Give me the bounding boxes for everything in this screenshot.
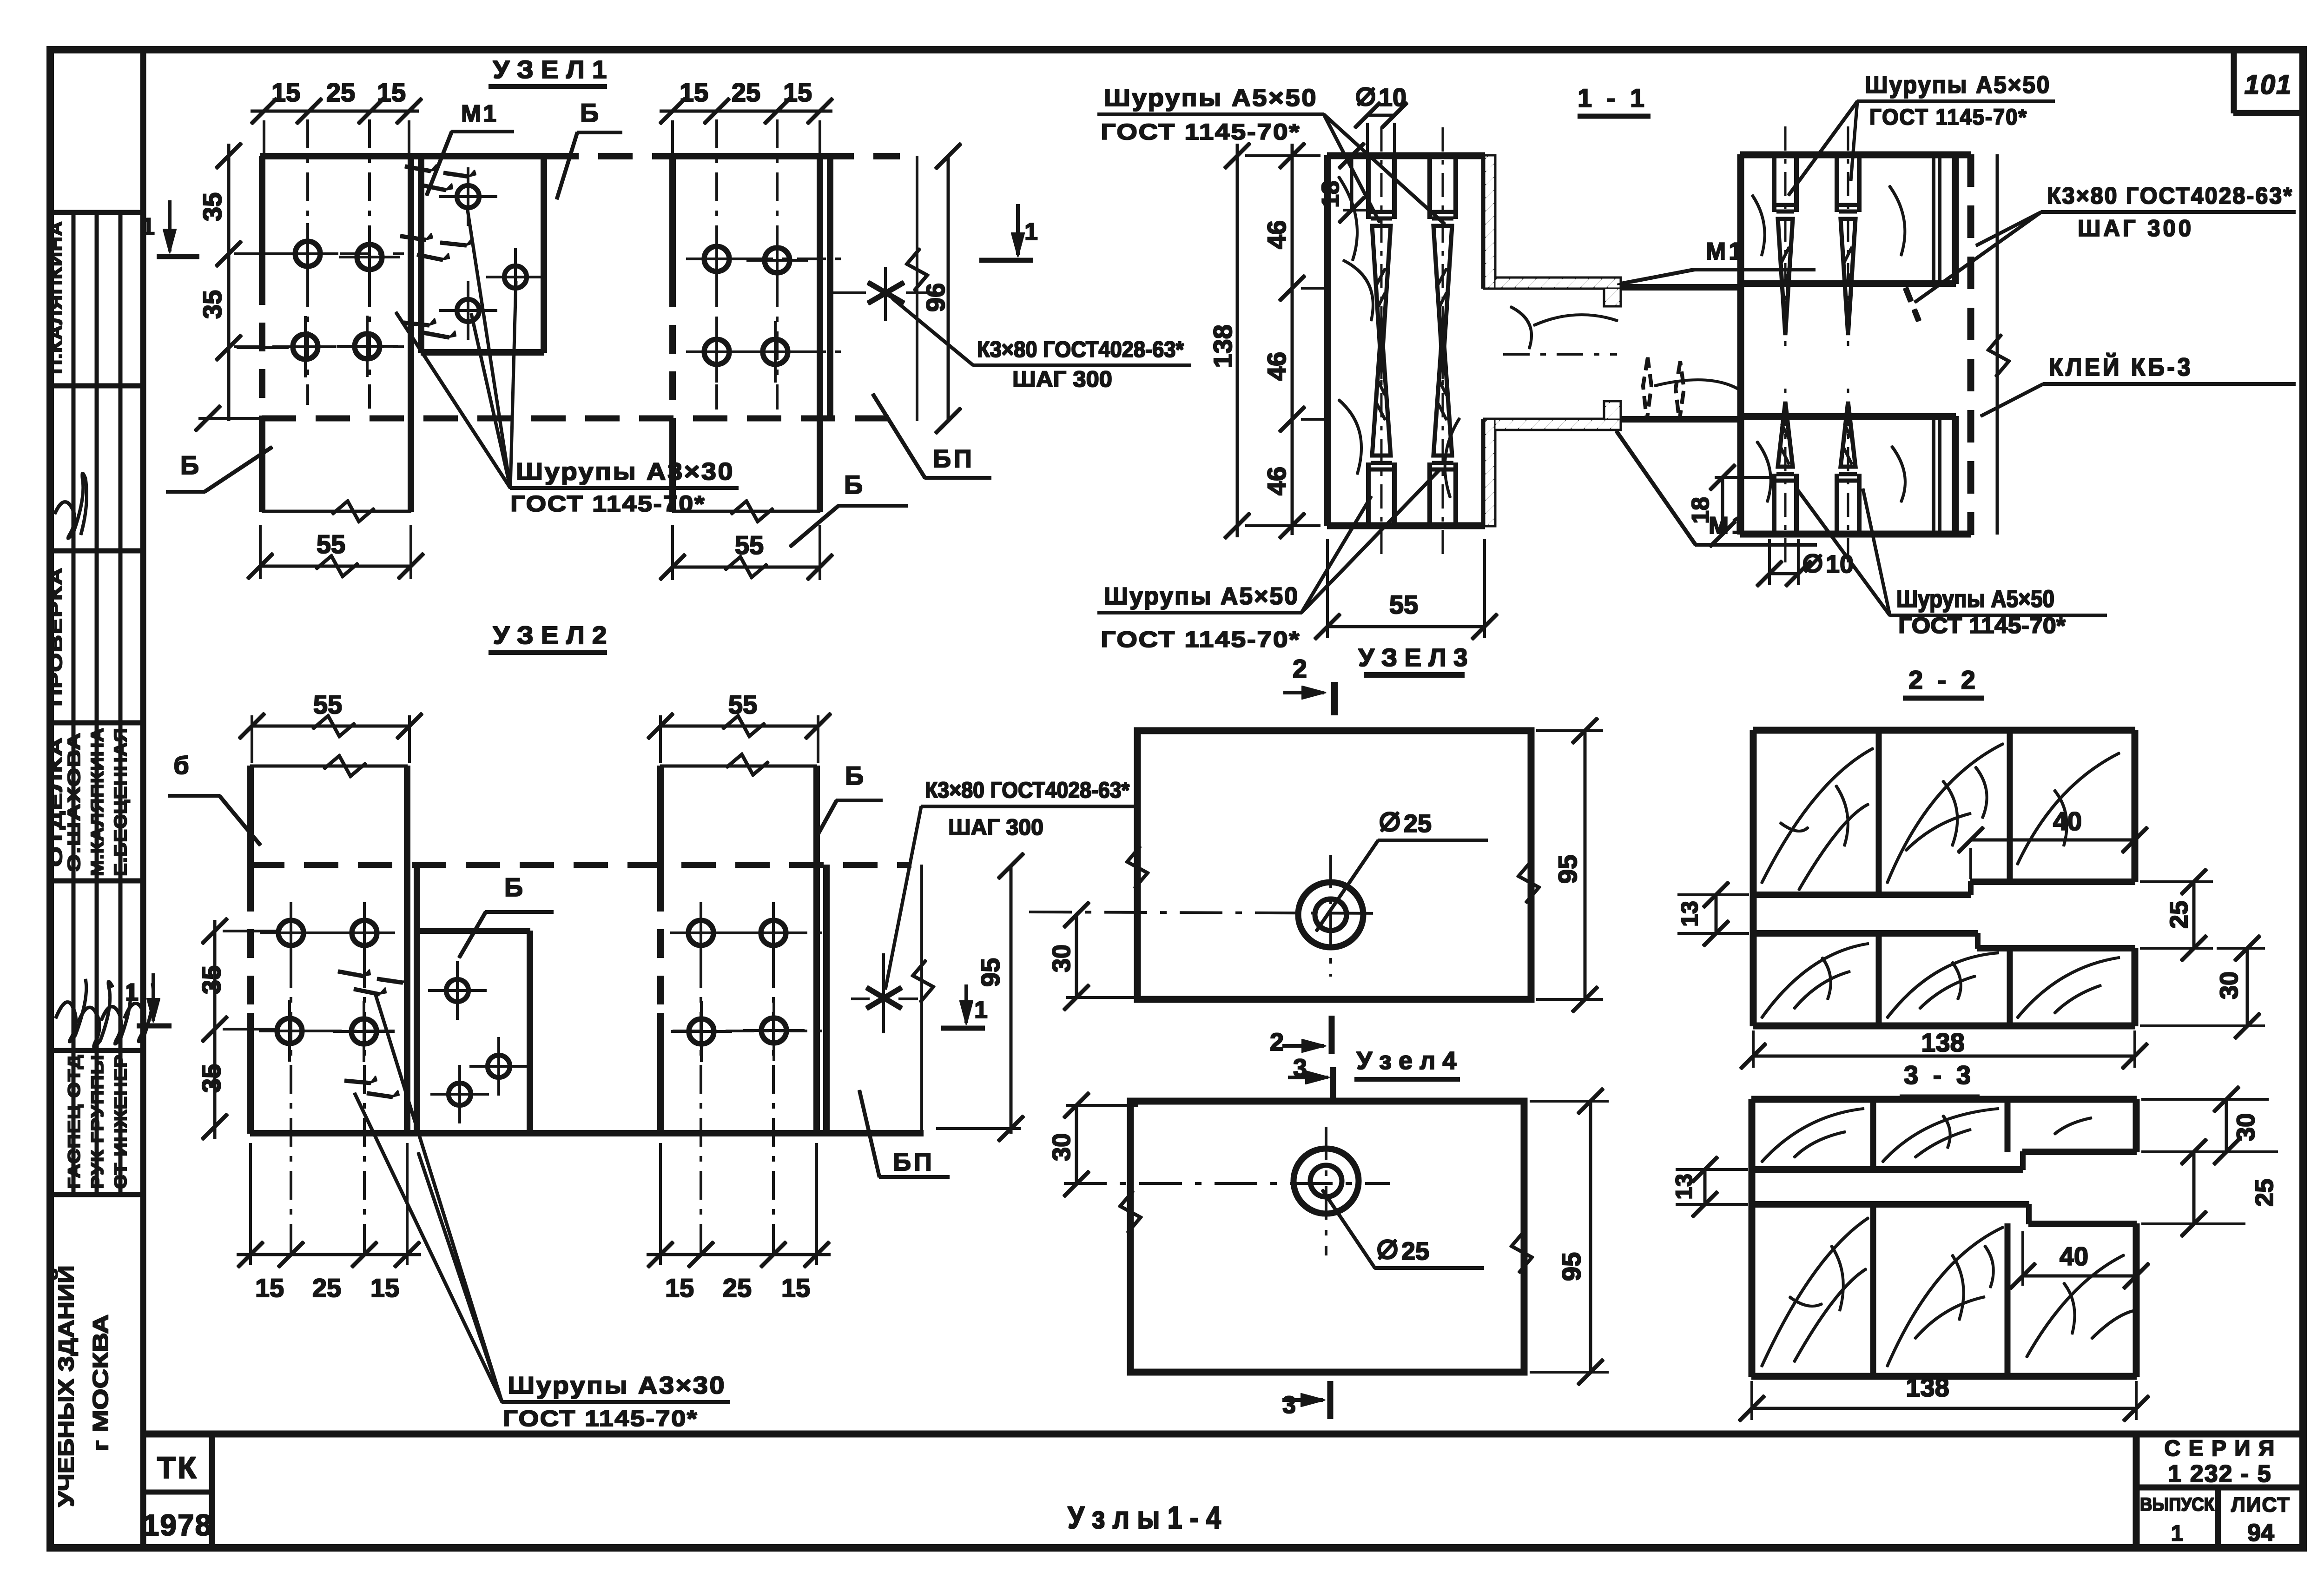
uzel4 bottom marker [1282, 1381, 1330, 1419]
series box [2136, 1434, 2303, 1548]
sec11R hidden edge dashed [1968, 155, 1974, 535]
uzel1 nail cross [832, 267, 937, 321]
uzel3 centerlines [1030, 855, 1383, 976]
title text СТ ИНЖЕНЕР [111, 1054, 130, 1189]
sec33 block outline [1752, 1099, 2136, 1376]
svg-text:2: 2 [1293, 654, 1307, 683]
sec11 post grain [1339, 177, 1459, 497]
bottom strip line [143, 1431, 2303, 1437]
svg-text:К3×80 ГОСТ4028-63*: К3×80 ГОСТ4028-63* [977, 337, 1184, 362]
svg-text:ШАГ 300: ШАГ 300 [2078, 215, 2194, 241]
uzel2A dim 35 chain [197, 918, 279, 1139]
svg-text:25: 25 [723, 1273, 752, 1302]
svg-text:Б: Б [580, 98, 599, 127]
title text П.КАЛЯПКИНА [46, 221, 66, 374]
uzel2B post holes [671, 903, 804, 1062]
title table grid [50, 212, 143, 1195]
uzel3 dim 95 [1537, 718, 1603, 1012]
svg-text:94: 94 [2247, 1519, 2274, 1546]
svg-text:Б: Б [845, 761, 864, 790]
uzel4 hole [1294, 1149, 1359, 1214]
svg-text:18: 18 [1317, 181, 1344, 208]
signature 1 [55, 474, 86, 538]
sec11 screw A1 top [1368, 128, 1394, 388]
uzel2B post left edge [658, 766, 663, 1133]
uzel1 label Б bottom [790, 470, 907, 547]
svg-text:Шурупы А3×30: Шурупы А3×30 [516, 458, 734, 485]
uzel1A screw wedges mid [401, 233, 473, 260]
section 3-3 heading [1900, 1060, 1979, 1097]
svg-text:1: 1 [141, 213, 155, 240]
uzel4 heading [1355, 1047, 1459, 1079]
vertical text г МОСКВА [88, 1315, 112, 1452]
svg-text:ШАГ 300: ШАГ 300 [1012, 367, 1112, 392]
svg-text:ТК: ТК [157, 1450, 198, 1485]
uzel1 screws label [396, 210, 738, 516]
uzel2A cut line [251, 756, 407, 776]
svg-text:95: 95 [1553, 855, 1582, 884]
sec11 beam top edge [1620, 284, 1741, 290]
svg-text:К3×80 ГОСТ4028-63*: К3×80 ГОСТ4028-63* [2047, 183, 2293, 209]
svg-text:Шурупы А5×50: Шурупы А5×50 [1896, 586, 2054, 613]
year 1978 [143, 1508, 212, 1542]
svg-text:25: 25 [312, 1273, 341, 1302]
svg-text:КЛЕЙ КБ-3: КЛЕЙ КБ-3 [2049, 353, 2193, 381]
svg-text:Э.ШАХОВА: Э.ШАХОВА [65, 732, 84, 872]
uzel1A dim 55 [248, 525, 423, 579]
uzel2A post holes [259, 903, 395, 1062]
sec22 dim 25 [2140, 869, 2212, 961]
svg-text:ОТДЕЛКА: ОТДЕЛКА [46, 737, 66, 867]
sec33 grain lower [1762, 1218, 2133, 1367]
uzel2 screws label [355, 995, 730, 1431]
uzel1B post left edge [670, 156, 675, 511]
sheet number 101 [2245, 70, 2292, 100]
signature 3 [78, 982, 112, 1047]
svg-text:1978: 1978 [143, 1508, 212, 1542]
sec11R screw B1 top [1774, 127, 1796, 353]
uzel1A screw wedges top [405, 165, 476, 190]
uzel2A screw wedges 1 [338, 970, 409, 994]
uzel3 bottom marker 2 [1270, 1016, 1332, 1056]
sec11 label M1 lower [1617, 431, 1816, 545]
svg-text:ГАСПЕЦ ОТД: ГАСПЕЦ ОТД [65, 1054, 84, 1189]
uzel3 label phi25 [1316, 810, 1487, 931]
svg-text:96: 96 [921, 283, 950, 312]
svg-text:15: 15 [377, 78, 406, 107]
series text СЕРИЯ [2164, 1436, 2275, 1461]
svg-text:55: 55 [317, 529, 345, 559]
svg-text:ШАГ 300: ШАГ 300 [948, 815, 1043, 840]
svg-text:15: 15 [271, 78, 300, 107]
uzel2 label K3x80 [885, 778, 1135, 989]
uzel2B cut line [660, 754, 817, 775]
title text Э.ШАХОВА [65, 732, 84, 872]
svg-text:1: 1 [1024, 218, 1038, 245]
uzel2B plate line [824, 865, 829, 1133]
svg-text:40: 40 [2060, 1242, 2088, 1271]
svg-text:Шурупы А5×50: Шурупы А5×50 [1865, 72, 2051, 99]
sec33 dim 25 [2142, 1139, 2278, 1236]
sec22 dim 138 [1741, 1028, 2147, 1069]
sec11R screw B2 top [1837, 127, 1859, 353]
svg-text:ГОСТ 1145-70*: ГОСТ 1145-70* [1101, 120, 1301, 145]
svg-text:15: 15 [781, 1273, 810, 1302]
svg-text:30: 30 [1048, 1133, 1076, 1161]
uzel2 nail cross [852, 954, 918, 1033]
svg-text:95: 95 [976, 958, 1005, 987]
uzel2 beam top dashed [251, 863, 911, 868]
svg-text:30: 30 [2215, 971, 2243, 999]
sec11R right boundary [1988, 155, 2009, 534]
sec11 beam bottom edge [1620, 416, 1741, 422]
svg-text:35: 35 [198, 192, 227, 221]
uzel2A screw wedges 2 [345, 1076, 399, 1097]
svg-text:Б: Б [180, 450, 199, 480]
svg-text:ПРОВЕРКА: ПРОВЕРКА [46, 567, 66, 707]
sec11 screw A4 bottom [1430, 307, 1456, 554]
sec11 screw A2 top [1430, 128, 1456, 388]
svg-text:1: 1 [125, 979, 139, 1006]
uzel1 section marker right [980, 205, 1038, 260]
uzel2 label Б top [817, 761, 882, 837]
uzel2 label БП [859, 1090, 949, 1177]
uzel2A plate outline [417, 865, 530, 1133]
svg-text:г МОСКВА: г МОСКВА [88, 1315, 112, 1452]
uzel1A screw wedges low [403, 318, 456, 337]
sec11R screws label bottom [1797, 489, 2106, 638]
svg-text:55: 55 [728, 690, 757, 719]
svg-text:138: 138 [1921, 1028, 1964, 1057]
sec11R inner lines [1934, 155, 1940, 534]
sec11 beam grain [1511, 307, 1741, 390]
svg-text:У З Е Л 3: У З Е Л 3 [1359, 644, 1468, 672]
uzel1 label БП [873, 394, 991, 478]
vertical text УЧЕБНЫХ ЗДАНИЙ [54, 1265, 78, 1507]
uzel1B post right edge [817, 156, 823, 511]
svg-text:46: 46 [1262, 352, 1291, 381]
sec33 grain upper [1762, 1109, 2092, 1162]
svg-text:35: 35 [197, 1064, 226, 1093]
svg-text:ГОСТ 1145-70*: ГОСТ 1145-70* [503, 1407, 698, 1431]
svg-text:15: 15 [255, 1273, 284, 1302]
uzel1B hole column centerlines [692, 120, 840, 409]
svg-text:25: 25 [326, 78, 355, 107]
svg-text:ГОСТ 1145-70*: ГОСТ 1145-70* [1898, 614, 2066, 638]
uzel2 section marker left [125, 974, 171, 1026]
svg-text:15: 15 [665, 1273, 694, 1302]
svg-text:Шурупы А3×30: Шурупы А3×30 [508, 1372, 726, 1399]
svg-text:55: 55 [1389, 590, 1418, 619]
uzel3 bottom marker 3 [1288, 1054, 1333, 1101]
sec11R label K3x80 [1906, 183, 2295, 321]
uzel1A post holes [275, 224, 400, 377]
uzel2A hole column centerlines [260, 906, 418, 1257]
sec33 dim 30 [2142, 1087, 2278, 1164]
section 2-2 heading [1903, 665, 1984, 698]
list text [2231, 1493, 2291, 1516]
sec22 block outline [1753, 730, 2135, 1026]
svg-text:БП: БП [893, 1148, 935, 1176]
svg-text:55: 55 [735, 530, 764, 560]
svg-text:25: 25 [1404, 810, 1432, 838]
uzel1A post left edge [259, 156, 265, 511]
sec22 grain lower [1762, 944, 2119, 1018]
series number [2168, 1460, 2271, 1487]
title text М.КАЛЯПКИНА [88, 727, 107, 876]
svg-text:30: 30 [1048, 945, 1076, 972]
svg-text:М1: М1 [461, 100, 498, 127]
svg-text:46: 46 [1262, 467, 1291, 495]
uzel3 dim 30 left [1048, 902, 1144, 1010]
sec11R dim phi10 [1757, 539, 1854, 586]
uzel1 label Б top [557, 98, 622, 199]
svg-text:3 - 3: 3 - 3 [1904, 1060, 1974, 1090]
uzel3 top marker [1284, 654, 1334, 715]
sec11R label КЛЕЙ КБ-3 [1981, 353, 2295, 416]
svg-text:138: 138 [1208, 324, 1237, 368]
sec11 dim phi10 top [1355, 84, 1407, 153]
svg-text:Б: Б [844, 470, 863, 499]
uzel2 beam bottom line [251, 1130, 923, 1136]
svg-text:35: 35 [197, 965, 226, 994]
sec11R outline [1741, 155, 1971, 534]
svg-text:2 - 2: 2 - 2 [1908, 665, 1979, 694]
svg-text:2: 2 [1270, 1028, 1284, 1056]
svg-text:К3×80 ГОСТ4028-63*: К3×80 ГОСТ4028-63* [925, 778, 1129, 803]
svg-text:46: 46 [1262, 220, 1291, 249]
svg-text:15: 15 [783, 78, 812, 107]
svg-text:1: 1 [2171, 1521, 2184, 1546]
uzel1A plate M1 outline [421, 156, 544, 352]
uzel2 heading [489, 621, 607, 653]
svg-text:У З Е Л 1: У З Е Л 1 [493, 56, 607, 84]
uzel3 edge breaks [1127, 846, 1539, 903]
sec22 dim 40 [1958, 806, 2147, 879]
sec11 left post outline [1327, 156, 1485, 526]
uzel1 label K3x80 [892, 298, 1191, 392]
sec11 beam dashdot [1504, 353, 1617, 355]
svg-text:Е.БЕСЦЕННАЯ: Е.БЕСЦЕННАЯ [111, 727, 131, 876]
uzel1A hole column centerlines [235, 120, 403, 408]
sec22 dim 13 [1677, 882, 1749, 946]
svg-text:М.КАЛЯПКИНА: М.КАЛЯПКИНА [88, 727, 107, 876]
svg-text:1 232 - 5: 1 232 - 5 [2168, 1460, 2271, 1487]
uzel1B dim 55 [660, 525, 832, 580]
svg-text:У З Е Л 2: У З Е Л 2 [493, 621, 607, 649]
svg-text:ГОСТ 1145-70*: ГОСТ 1145-70* [1869, 105, 2027, 130]
sec33 dim 13 [1671, 1157, 1748, 1217]
svg-text:95: 95 [1557, 1252, 1586, 1281]
svg-text:б: б [173, 752, 189, 779]
svg-text:1: 1 [974, 997, 988, 1024]
svg-text:Шурупы А5×50: Шурупы А5×50 [1104, 85, 1318, 112]
sec11R screw B3 bottom [1774, 383, 1796, 562]
sheet number box [2234, 50, 2303, 113]
uzel1A cut line [262, 501, 411, 522]
svg-text:25: 25 [732, 78, 760, 107]
svg-text:55: 55 [313, 690, 342, 719]
uzel2A dim 15-25-15 [237, 1143, 421, 1302]
uzel2A post right edge [404, 766, 410, 1133]
uzel4 rect [1130, 1101, 1524, 1372]
uzel1A beam bottom dashed [262, 416, 902, 421]
uzel4 dim 30 left [1048, 1093, 1138, 1196]
svg-text:С Е Р И Я: С Е Р И Я [2164, 1436, 2275, 1461]
uzel2A post left edge [248, 766, 253, 1133]
sec11R screw B4 bottom [1837, 383, 1859, 562]
sec11R dim 18 [1687, 465, 1771, 547]
svg-text:138: 138 [1906, 1373, 1949, 1402]
uzel2 label Б mid [459, 872, 553, 958]
uzel1B cut line [673, 501, 820, 522]
sheet title Узлы 1-4 [1068, 1500, 1221, 1535]
svg-text:3: 3 [1282, 1392, 1296, 1419]
uzel1B plate line [827, 156, 833, 419]
title text ПРОВЕРКА [46, 567, 66, 707]
uzel3 rect [1137, 731, 1531, 999]
svg-text:ГОСТ 1145-70*: ГОСТ 1145-70* [510, 492, 706, 516]
signature 2 [56, 979, 86, 1042]
uzel2B dim 15-25-15 [647, 1143, 830, 1302]
svg-text:СТ ИНЖЕНЕР: СТ ИНЖЕНЕР [111, 1054, 130, 1189]
sec11 screws label bottom-left [1098, 470, 1439, 652]
uzel1 label Б bottom-left [166, 447, 272, 492]
sec11R break z mark [0, 0, 0, 0]
TK text [157, 1450, 198, 1485]
uzel1A plate holes [439, 168, 544, 339]
uzel2 label б top-left [168, 752, 260, 845]
uzel2B hole column centerlines [673, 906, 832, 1257]
svg-text:ВЫПУСК: ВЫПУСК [2140, 1494, 2215, 1515]
signature 4 [101, 985, 131, 1044]
vypusk number [2171, 1521, 2184, 1546]
svg-text:25: 25 [1401, 1237, 1429, 1265]
sec11R grain [1752, 186, 1905, 502]
title text ОТДЕЛКА [46, 737, 66, 867]
uzel4 edge breaks [1120, 1191, 1532, 1273]
svg-text:25: 25 [2165, 901, 2193, 929]
svg-text:Шурупы А5×50: Шурупы А5×50 [1104, 583, 1299, 610]
svg-text:Б: Б [504, 872, 523, 902]
uzel2A dim 55 [239, 690, 422, 762]
sec33 dim 138 [1739, 1373, 2149, 1421]
svg-text:13: 13 [1671, 1174, 1697, 1200]
uzel3 hole [1298, 882, 1363, 947]
svg-text:10: 10 [1826, 550, 1854, 578]
svg-text:У з л ы 1 - 4: У з л ы 1 - 4 [1068, 1500, 1221, 1535]
svg-text:1 - 1: 1 - 1 [1578, 83, 1648, 112]
uzel2A plate holes [429, 962, 528, 1123]
uzel1B dim 96 [907, 144, 961, 433]
left margin line [141, 50, 146, 1548]
signature 5 [125, 984, 153, 1042]
uzel2B post right edge [814, 766, 819, 1133]
uzel2B dim 55 [648, 690, 831, 762]
title text Е.БЕСЦЕННАЯ [111, 727, 131, 876]
svg-text:18: 18 [1687, 497, 1714, 524]
sec11 beam nails [1643, 358, 1684, 421]
sec11 dim 55 bottom [1315, 539, 1497, 639]
sec11 screws label top-left [1098, 85, 1445, 224]
uzel1A dim 35 chain [195, 143, 288, 431]
section 1-1 heading [1578, 83, 1650, 116]
svg-text:У з е л 4: У з е л 4 [1357, 1047, 1457, 1075]
sec11 dim 138 [1208, 143, 1320, 538]
uzel1A dim 15-25-15 [251, 78, 422, 153]
svg-text:25: 25 [2251, 1179, 2278, 1207]
sec22 dim 30 [2140, 936, 2265, 1038]
svg-text:35: 35 [198, 290, 227, 319]
uzel4 centerlines [1064, 1127, 1390, 1255]
list number [2247, 1519, 2274, 1546]
svg-text:П.КАЛЯПКИНА: П.КАЛЯПКИНА [46, 221, 66, 374]
sec11 upper M1 plate [1485, 156, 1620, 306]
sec11 screw A3 bottom [1368, 307, 1394, 554]
uzel1B dim 15-25-15 [660, 78, 832, 153]
uzel4 dim 95 [1530, 1089, 1608, 1385]
svg-text:40: 40 [2053, 806, 2082, 836]
uzel1A beam top line [260, 153, 899, 159]
uzel1A post right edge [408, 156, 414, 511]
svg-text:15: 15 [680, 78, 708, 107]
svg-text:ЛИСТ: ЛИСТ [2231, 1493, 2291, 1516]
uzel1 heading [489, 56, 607, 86]
uzel1 section marker left [141, 201, 199, 257]
uzel2 section marker right [942, 985, 988, 1028]
title text РУК ГРУППЫ [88, 1054, 107, 1189]
title text ГАСПЕЦ ОТД [65, 1054, 84, 1189]
svg-text:101: 101 [2245, 70, 2292, 100]
sec11 dim 46 chain [1262, 143, 1325, 538]
TK box [143, 1434, 212, 1548]
uzel1 label M1 [427, 100, 514, 195]
sec33 dim 40 [2010, 1232, 2149, 1288]
sec11R screws label top [1789, 72, 2054, 195]
svg-text:УЧЕБНЫХ ЗДАНИЙ: УЧЕБНЫХ ЗДАНИЙ [54, 1265, 78, 1507]
svg-text:БП: БП [933, 445, 975, 473]
sec11 label M1 upper [1617, 238, 1815, 284]
svg-text:13: 13 [1677, 901, 1703, 927]
svg-text:РУК ГРУППЫ: РУК ГРУППЫ [88, 1054, 107, 1189]
sec22 grain upper [1762, 744, 2119, 890]
uzel1B post holes [687, 229, 807, 382]
svg-text:15: 15 [370, 1273, 399, 1302]
vypusk text [2140, 1494, 2215, 1515]
sec11 lower M1 plate [1485, 402, 1620, 526]
svg-text:ГОСТ 1145-70*: ГОСТ 1145-70* [1101, 628, 1301, 652]
svg-text:30: 30 [2232, 1113, 2260, 1141]
svg-text:10: 10 [1379, 84, 1406, 112]
sec11 dim 18 top [1317, 143, 1367, 223]
uzel2 dim 95 [913, 853, 1023, 1141]
uzel3 heading [1359, 644, 1468, 675]
uzel4 label phi25 [1322, 1190, 1484, 1268]
